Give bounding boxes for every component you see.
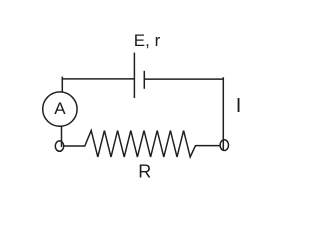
wire top-right horizontal segment [144, 78, 223, 80]
resistor R zigzag [64, 131, 220, 158]
node right terminal [220, 140, 228, 151]
wire top-left horizontal segment [62, 78, 134, 80]
svg-text:I: I [236, 95, 242, 117]
wire ammeter bottom to left terminal [61, 126, 63, 147]
node left terminal [55, 141, 63, 151]
battery short plate [143, 71, 145, 89]
svg-text:A: A [54, 99, 66, 118]
ammeter U1 circle [43, 92, 77, 126]
svg-text:E, r: E, r [134, 31, 161, 50]
battery long plate (cell E, r) [133, 53, 135, 98]
svg-text:R: R [138, 161, 151, 181]
wire left vertical (to ammeter) [61, 77, 63, 92]
wire right vertical (to right terminal) [222, 77, 224, 150]
